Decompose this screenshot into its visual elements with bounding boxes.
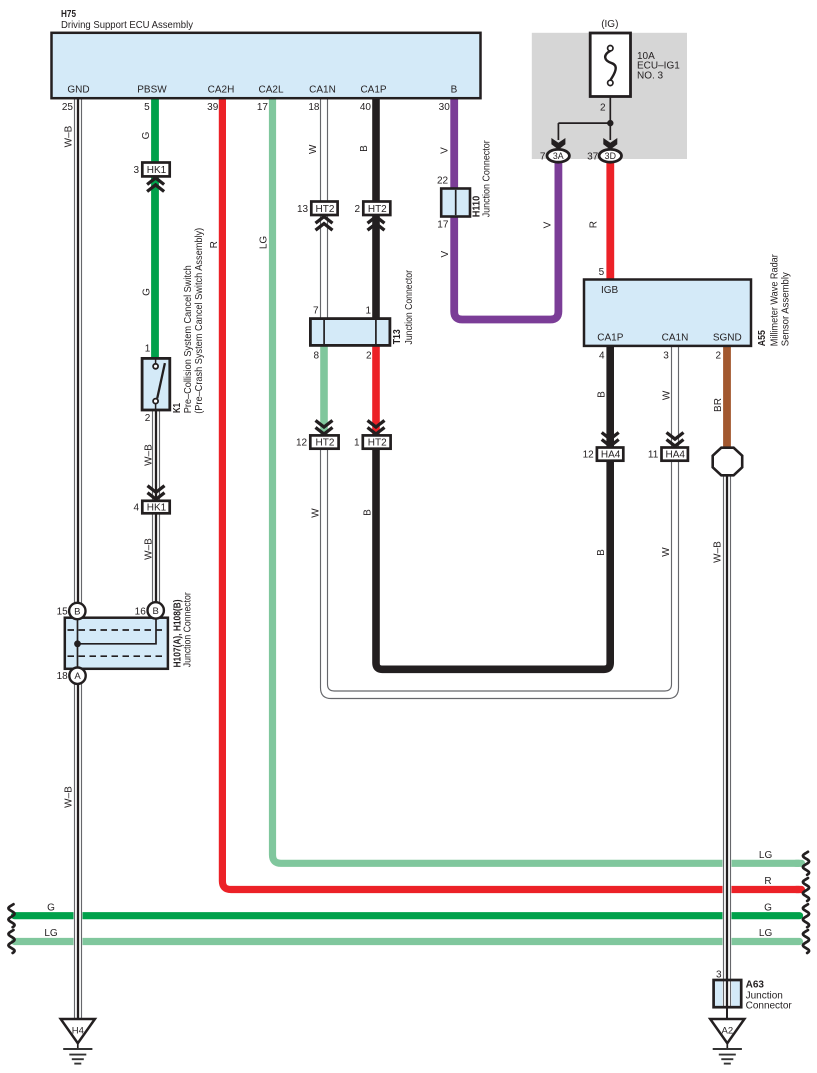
svg-text:3: 3 [134, 165, 140, 176]
svg-text:39: 39 [207, 102, 219, 113]
svg-text:Junction Connector: Junction Connector [482, 140, 493, 218]
svg-text:LG: LG [44, 928, 58, 939]
svg-text:1: 1 [354, 438, 360, 449]
svg-text:W–B: W–B [144, 538, 155, 560]
svg-text:HT2: HT2 [315, 204, 334, 215]
svg-text:A2: A2 [721, 1026, 733, 1037]
svg-text:W: W [311, 508, 322, 518]
svg-text:CA2H: CA2H [208, 84, 235, 95]
svg-text:W–B: W–B [64, 786, 75, 808]
svg-text:30: 30 [439, 102, 451, 113]
svg-text:G: G [764, 902, 772, 913]
svg-text:17: 17 [437, 220, 449, 231]
svg-text:Connector: Connector [746, 1001, 793, 1012]
svg-text:17: 17 [257, 102, 269, 113]
svg-text:NO. 3: NO. 3 [637, 70, 664, 81]
svg-text:H4: H4 [72, 1026, 84, 1037]
svg-text:Millimeter Wave Radar: Millimeter Wave Radar [770, 254, 781, 347]
svg-text:12: 12 [583, 450, 595, 461]
svg-text:3: 3 [663, 350, 669, 361]
svg-text:3: 3 [716, 970, 722, 981]
svg-text:PBSW: PBSW [137, 84, 167, 95]
svg-text:40: 40 [360, 102, 372, 113]
svg-text:Junction Connector: Junction Connector [182, 592, 193, 668]
svg-text:R: R [764, 876, 771, 887]
svg-text:2: 2 [366, 351, 372, 362]
svg-text:G: G [141, 288, 152, 296]
svg-text:LG: LG [258, 236, 269, 250]
svg-text:16: 16 [135, 607, 147, 618]
svg-text:5: 5 [144, 102, 150, 113]
svg-text:B: B [359, 145, 370, 152]
svg-text:2: 2 [600, 102, 606, 113]
svg-text:BR: BR [713, 398, 724, 412]
svg-text:B: B [596, 549, 607, 556]
svg-text:T13: T13 [392, 329, 403, 344]
svg-text:(Pre–Crash System Cancel Switc: (Pre–Crash System Cancel Switch Assembly… [194, 228, 205, 414]
svg-text:2: 2 [715, 350, 721, 361]
svg-text:18: 18 [57, 671, 69, 682]
svg-text:13: 13 [297, 204, 309, 215]
svg-text:B: B [597, 391, 608, 398]
svg-text:V: V [440, 251, 451, 258]
svg-text:B: B [153, 606, 159, 617]
svg-text:W–B: W–B [712, 541, 723, 563]
svg-text:CA2L: CA2L [258, 84, 283, 95]
svg-text:7: 7 [313, 306, 319, 317]
svg-text:2: 2 [355, 204, 361, 215]
svg-text:4: 4 [134, 503, 140, 514]
svg-text:Pre–Collision System Cancel Sw: Pre–Collision System Cancel Switch [183, 265, 194, 413]
svg-text:3D: 3D [605, 151, 616, 161]
svg-text:Sensor Assembly: Sensor Assembly [780, 272, 791, 346]
svg-text:LG: LG [759, 928, 773, 939]
svg-text:3A: 3A [553, 151, 564, 161]
svg-text:V: V [440, 147, 451, 154]
svg-text:HA4: HA4 [601, 450, 621, 461]
svg-text:22: 22 [437, 176, 449, 187]
svg-text:HA4: HA4 [665, 450, 685, 461]
svg-text:HK1: HK1 [147, 165, 167, 176]
svg-text:Junction Connector: Junction Connector [404, 269, 415, 344]
svg-text:SGND: SGND [713, 332, 742, 343]
svg-text:HT2: HT2 [368, 204, 387, 215]
svg-text:CA1N: CA1N [662, 332, 689, 343]
svg-text:B: B [74, 606, 80, 617]
svg-text:R: R [588, 221, 599, 228]
svg-text:R: R [209, 241, 220, 248]
svg-text:G: G [141, 131, 152, 139]
svg-text:B: B [451, 84, 458, 95]
svg-text:HK1: HK1 [147, 503, 167, 514]
svg-text:37: 37 [587, 151, 599, 162]
svg-text:5: 5 [599, 267, 605, 278]
svg-text:1: 1 [145, 343, 151, 354]
svg-text:A63: A63 [746, 980, 765, 991]
svg-text:GND: GND [67, 84, 89, 95]
svg-text:W: W [662, 390, 673, 400]
svg-text:V: V [542, 221, 553, 228]
svg-text:4: 4 [599, 350, 605, 361]
svg-text:Driving Support ECU Assembly: Driving Support ECU Assembly [61, 20, 193, 31]
svg-text:W–B: W–B [143, 444, 154, 466]
svg-text:HT2: HT2 [368, 438, 387, 449]
svg-text:A: A [74, 671, 81, 682]
svg-text:H75: H75 [61, 9, 76, 20]
svg-text:HT2: HT2 [315, 438, 334, 449]
svg-text:CA1N: CA1N [309, 84, 336, 95]
svg-text:A55: A55 [757, 330, 768, 346]
svg-text:W: W [308, 144, 319, 154]
svg-text:IGB: IGB [601, 285, 619, 296]
svg-text:G: G [47, 902, 55, 913]
svg-text:B: B [363, 509, 374, 516]
svg-text:15: 15 [57, 607, 69, 618]
svg-text:W: W [661, 547, 672, 557]
svg-text:K1: K1 [172, 403, 183, 413]
svg-text:25: 25 [62, 102, 74, 113]
svg-text:LG: LG [759, 850, 773, 861]
svg-text:W–B: W–B [64, 125, 75, 147]
svg-text:8: 8 [313, 351, 319, 362]
svg-text:CA1P: CA1P [360, 84, 386, 95]
svg-text:CA1P: CA1P [597, 332, 623, 343]
svg-text:12: 12 [296, 438, 308, 449]
svg-text:7: 7 [540, 151, 546, 162]
svg-text:18: 18 [308, 102, 320, 113]
svg-text:1: 1 [365, 306, 371, 317]
svg-text:2: 2 [145, 413, 151, 424]
svg-text:11: 11 [648, 450, 659, 461]
svg-text:(IG): (IG) [601, 19, 618, 30]
